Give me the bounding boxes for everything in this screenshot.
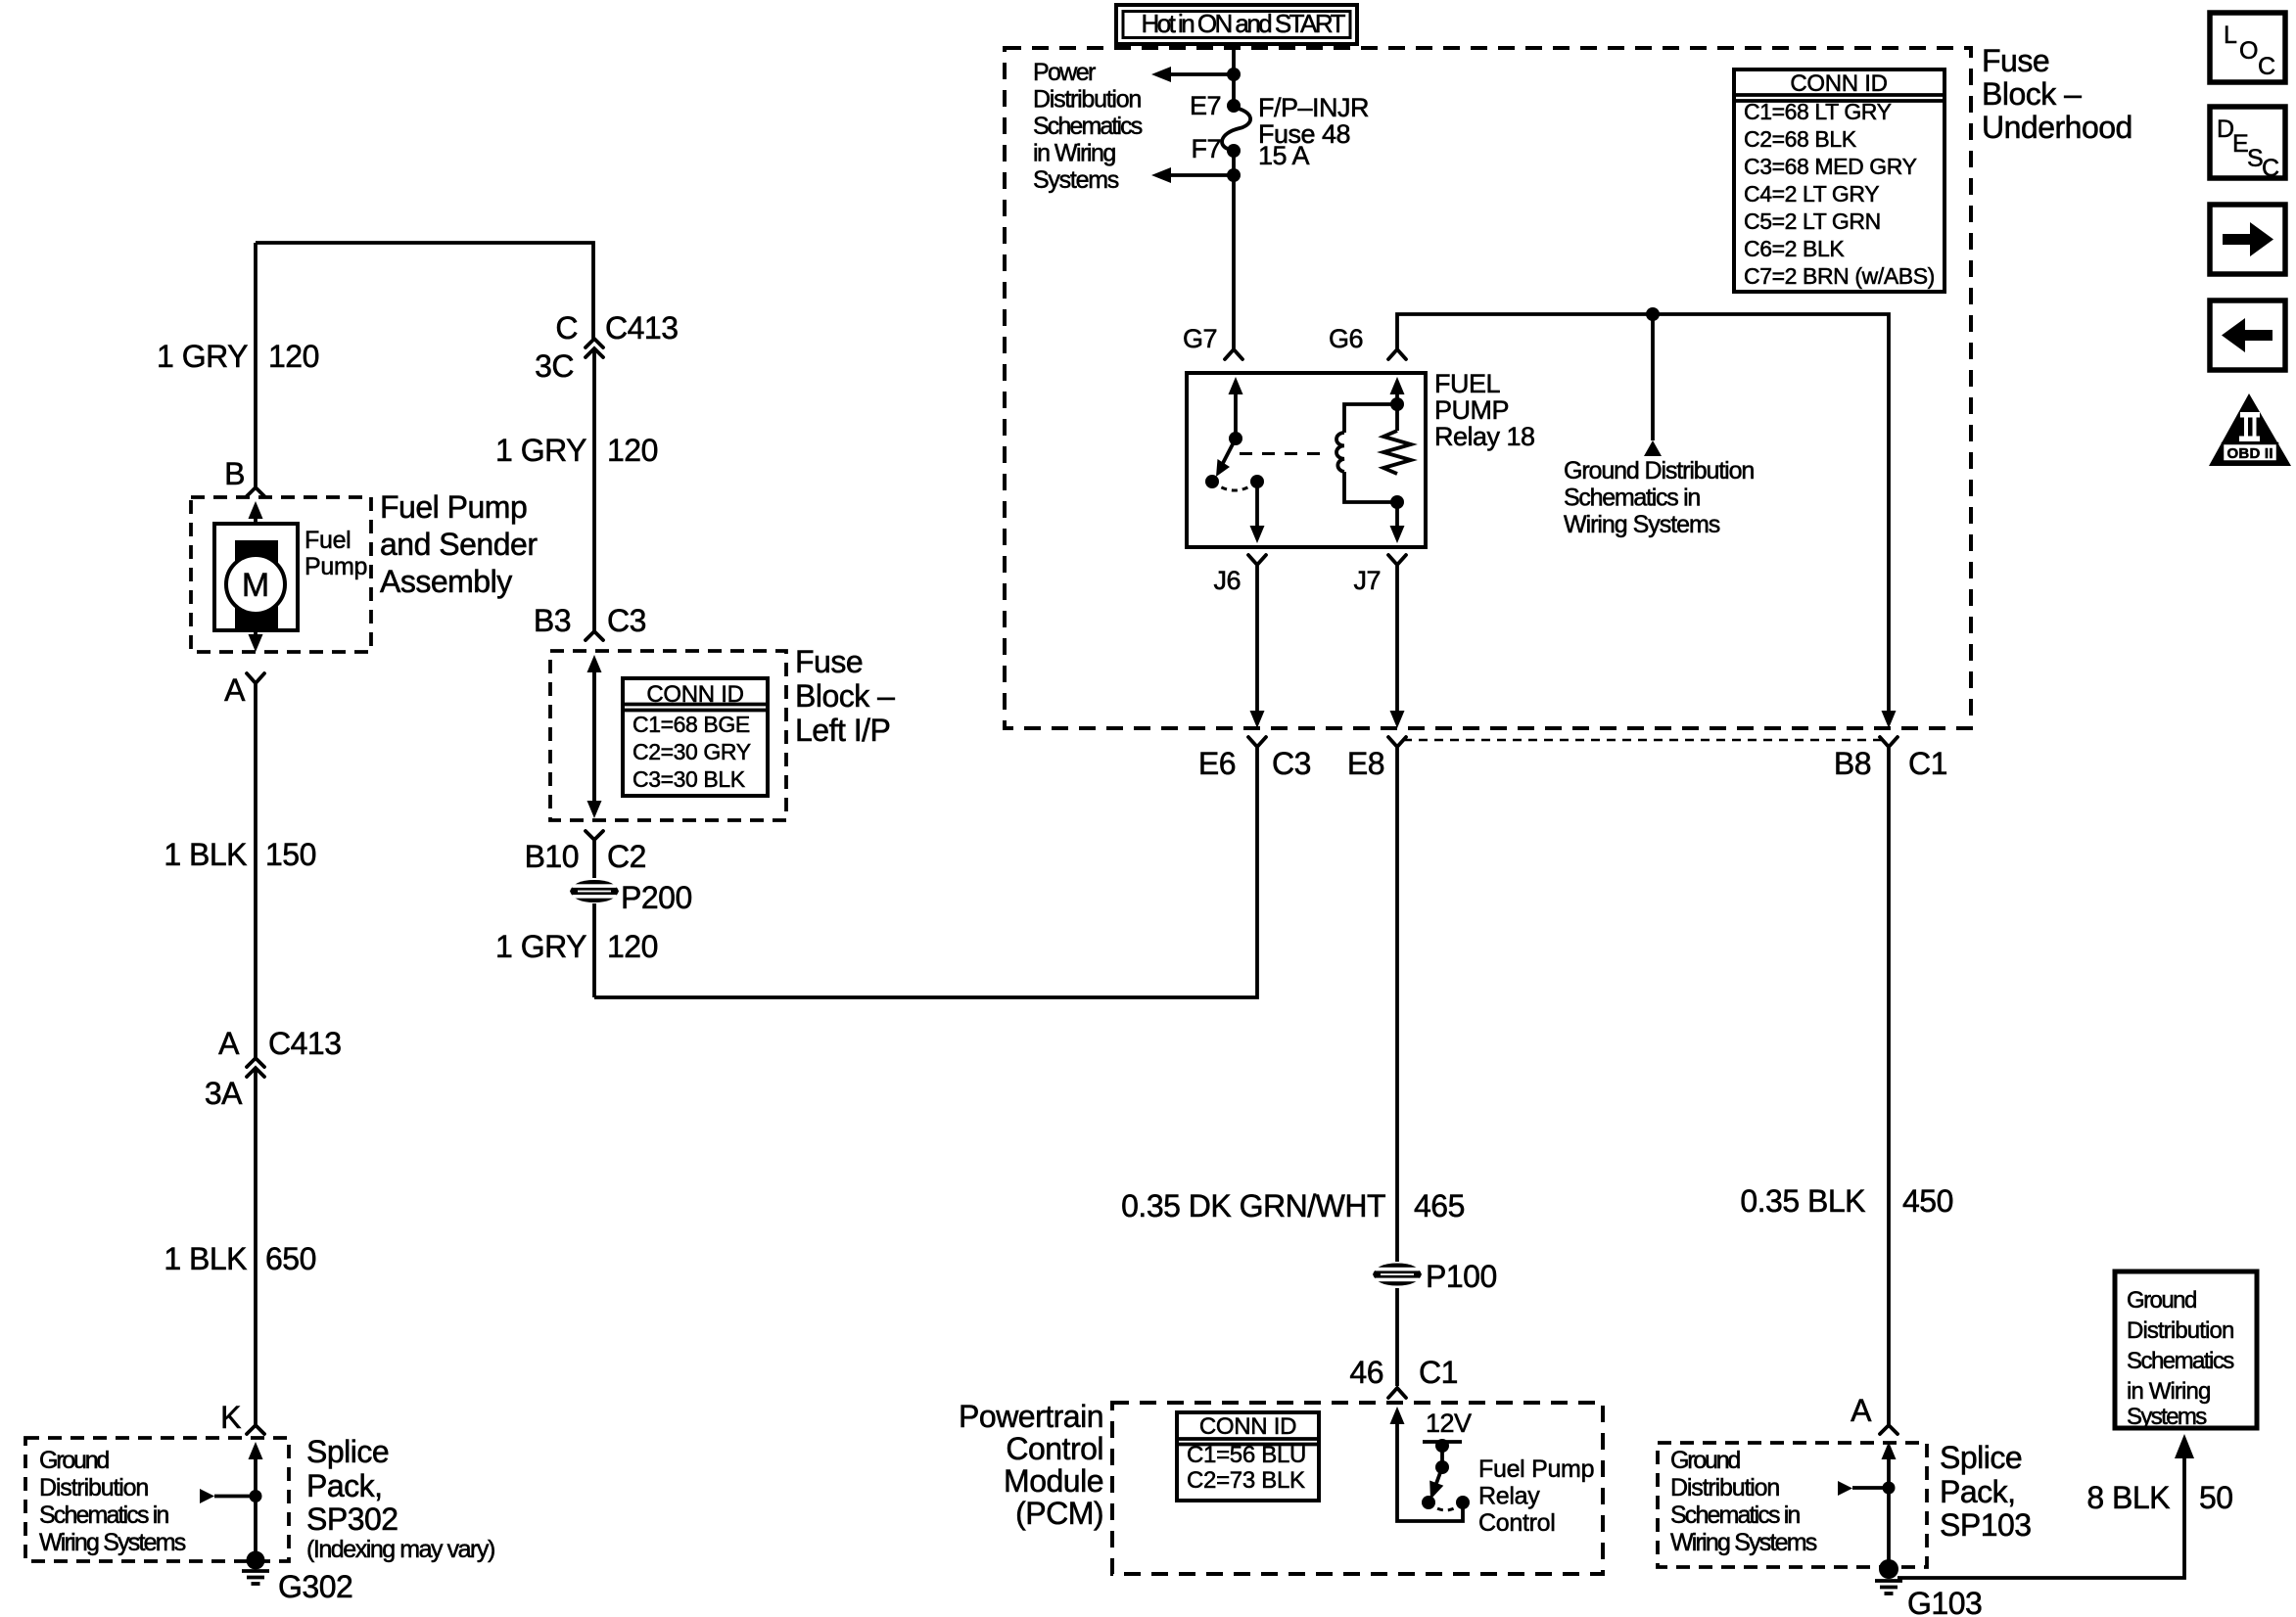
svg-text:Distribution: Distribution [39, 1474, 149, 1501]
svg-text:1 GRY: 1 GRY [157, 339, 248, 374]
svg-text:C1: C1 [1908, 746, 1947, 781]
svg-text:CONN ID: CONN ID [1199, 1413, 1296, 1440]
svg-text:Block –: Block – [1982, 76, 2082, 112]
svg-text:J6: J6 [1213, 566, 1241, 595]
svg-text:C2: C2 [607, 839, 646, 874]
svg-text:650: 650 [265, 1241, 316, 1276]
svg-text:A: A [1851, 1393, 1872, 1428]
svg-text:C: C [555, 310, 578, 346]
svg-text:FUEL: FUEL [1434, 369, 1501, 398]
svg-text:Ground Distribution: Ground Distribution [1564, 457, 1755, 485]
svg-text:C1=68 LT GRY: C1=68 LT GRY [1744, 99, 1892, 124]
svg-text:Control: Control [1006, 1431, 1103, 1466]
svg-text:Pump: Pump [305, 553, 367, 580]
svg-text:CONN ID: CONN ID [1790, 70, 1887, 97]
svg-text:C413: C413 [605, 310, 679, 346]
svg-text:CONN ID: CONN ID [646, 681, 743, 708]
svg-text:PUMP: PUMP [1434, 395, 1509, 425]
svg-text:Wiring Systems: Wiring Systems [1670, 1529, 1817, 1556]
svg-text:1 BLK: 1 BLK [164, 837, 247, 872]
svg-text:C7=2 BRN (w/ABS): C7=2 BRN (w/ABS) [1744, 263, 1935, 289]
svg-text:Wiring Systems: Wiring Systems [39, 1529, 186, 1556]
svg-text:SP302: SP302 [306, 1501, 398, 1537]
svg-text:Splice: Splice [306, 1434, 389, 1469]
svg-text:O: O [2239, 37, 2258, 65]
svg-text:Left I/P: Left I/P [795, 713, 890, 748]
svg-text:E7: E7 [1190, 91, 1221, 120]
svg-text:0.35 DK GRN/WHT: 0.35 DK GRN/WHT [1121, 1188, 1385, 1224]
svg-text:E8: E8 [1347, 746, 1384, 781]
svg-text:Fuel Pump: Fuel Pump [380, 489, 527, 525]
svg-text:C5=2 LT GRN: C5=2 LT GRN [1744, 208, 1881, 234]
svg-text:120: 120 [607, 433, 658, 468]
svg-text:Schematics in: Schematics in [1670, 1501, 1801, 1529]
svg-text:C1=68 BGE: C1=68 BGE [633, 712, 750, 737]
svg-text:K: K [220, 1400, 241, 1435]
svg-text:Systems: Systems [1033, 166, 1119, 194]
svg-text:G302: G302 [278, 1569, 352, 1604]
svg-text:450: 450 [1902, 1183, 1953, 1219]
svg-text:G6: G6 [1329, 324, 1363, 353]
svg-text:Fuel: Fuel [305, 527, 351, 554]
svg-text:C3=30 BLK: C3=30 BLK [633, 766, 746, 792]
svg-text:C1=56 BLU: C1=56 BLU [1187, 1442, 1306, 1468]
svg-text:120: 120 [268, 339, 319, 374]
svg-text:B8: B8 [1834, 746, 1871, 781]
svg-text:Ground: Ground [39, 1447, 110, 1474]
svg-text:1 GRY: 1 GRY [495, 929, 586, 964]
svg-text:Schematics: Schematics [1033, 113, 1143, 140]
svg-text:Distribution: Distribution [1033, 86, 1142, 114]
svg-text:C: C [2262, 155, 2279, 182]
svg-text:Ground: Ground [1670, 1447, 1741, 1474]
svg-text:G7: G7 [1183, 324, 1217, 353]
svg-text:SP103: SP103 [1940, 1507, 2032, 1543]
svg-text:C1: C1 [1419, 1355, 1458, 1390]
svg-text:C3: C3 [607, 603, 646, 638]
svg-text:12V: 12V [1426, 1409, 1472, 1438]
svg-text:G103: G103 [1907, 1586, 1982, 1617]
svg-text:(PCM): (PCM) [1015, 1496, 1103, 1531]
svg-text:50: 50 [2199, 1480, 2233, 1515]
svg-text:Assembly: Assembly [380, 564, 512, 599]
svg-text:Control: Control [1478, 1509, 1556, 1537]
svg-text:1 BLK: 1 BLK [164, 1241, 247, 1276]
svg-text:C3=68 MED GRY: C3=68 MED GRY [1744, 154, 1917, 179]
svg-text:0.35 BLK: 0.35 BLK [1740, 1183, 1865, 1219]
svg-text:Schematics: Schematics [2127, 1348, 2234, 1374]
svg-text:Relay: Relay [1478, 1483, 1540, 1510]
svg-text:C: C [2258, 53, 2275, 80]
svg-text:C413: C413 [268, 1026, 342, 1061]
svg-text:Hot in ON and START: Hot in ON and START [1142, 9, 1346, 38]
svg-text:8 BLK: 8 BLK [2086, 1480, 2170, 1515]
svg-text:Pack,: Pack, [306, 1468, 383, 1503]
svg-text:Underhood: Underhood [1982, 110, 2132, 145]
svg-text:C2=30 GRY: C2=30 GRY [633, 739, 751, 764]
svg-text:3A: 3A [205, 1076, 243, 1111]
svg-text:Fuel Pump: Fuel Pump [1478, 1455, 1594, 1483]
svg-text:Distribution: Distribution [2127, 1317, 2234, 1344]
svg-text:Splice: Splice [1940, 1440, 2022, 1475]
svg-text:J7: J7 [1353, 566, 1381, 595]
svg-text:B: B [224, 456, 245, 491]
svg-text:OBD II: OBD II [2227, 445, 2273, 462]
svg-text:Fuse: Fuse [795, 644, 863, 679]
svg-text:L: L [2224, 22, 2237, 49]
svg-text:Systems: Systems [2127, 1404, 2207, 1430]
svg-text:46: 46 [1349, 1355, 1383, 1390]
svg-text:Block –: Block – [795, 678, 895, 714]
svg-text:B10: B10 [525, 839, 579, 874]
svg-text:Power: Power [1033, 59, 1096, 86]
svg-text:Schematics in: Schematics in [1564, 485, 1701, 512]
svg-text:P100: P100 [1426, 1259, 1497, 1294]
svg-text:150: 150 [265, 837, 316, 872]
svg-text:Schematics in: Schematics in [39, 1501, 169, 1529]
svg-text:C6=2 BLK: C6=2 BLK [1744, 236, 1845, 261]
svg-text:Wiring Systems: Wiring Systems [1564, 511, 1720, 538]
svg-text:in Wiring: in Wiring [1033, 140, 1116, 167]
svg-text:120: 120 [607, 929, 658, 964]
svg-text:Distribution: Distribution [1670, 1474, 1780, 1501]
svg-text:M: M [242, 567, 269, 604]
svg-text:B3: B3 [534, 603, 571, 638]
svg-text:Pack,: Pack, [1940, 1474, 2016, 1509]
svg-text:P200: P200 [621, 880, 692, 915]
svg-text:C3: C3 [1272, 746, 1311, 781]
svg-text:in Wiring: in Wiring [2127, 1378, 2211, 1405]
svg-text:F7: F7 [1191, 134, 1221, 163]
svg-text:A: A [224, 672, 246, 708]
svg-text:E6: E6 [1198, 746, 1236, 781]
svg-text:15 A: 15 A [1258, 141, 1310, 170]
svg-text:A: A [218, 1026, 240, 1061]
svg-text:465: 465 [1414, 1188, 1465, 1224]
svg-text:C2=73 BLK: C2=73 BLK [1187, 1467, 1305, 1494]
svg-text:C4=2 LT GRY: C4=2 LT GRY [1744, 181, 1879, 207]
svg-text:C2=68 BLK: C2=68 BLK [1744, 126, 1857, 152]
svg-text:Relay 18: Relay 18 [1434, 422, 1535, 451]
svg-text:Module: Module [1004, 1463, 1103, 1499]
svg-text:Powertrain: Powertrain [959, 1399, 1103, 1434]
svg-text:1 GRY: 1 GRY [495, 433, 586, 468]
svg-text:F/P–INJR: F/P–INJR [1258, 93, 1369, 122]
svg-text:3C: 3C [535, 348, 574, 384]
svg-text:Fuse: Fuse [1982, 43, 2049, 78]
svg-text:and Sender: and Sender [380, 527, 538, 562]
svg-text:(Indexing may vary): (Indexing may vary) [306, 1536, 495, 1563]
svg-text:Ground: Ground [2127, 1287, 2197, 1314]
